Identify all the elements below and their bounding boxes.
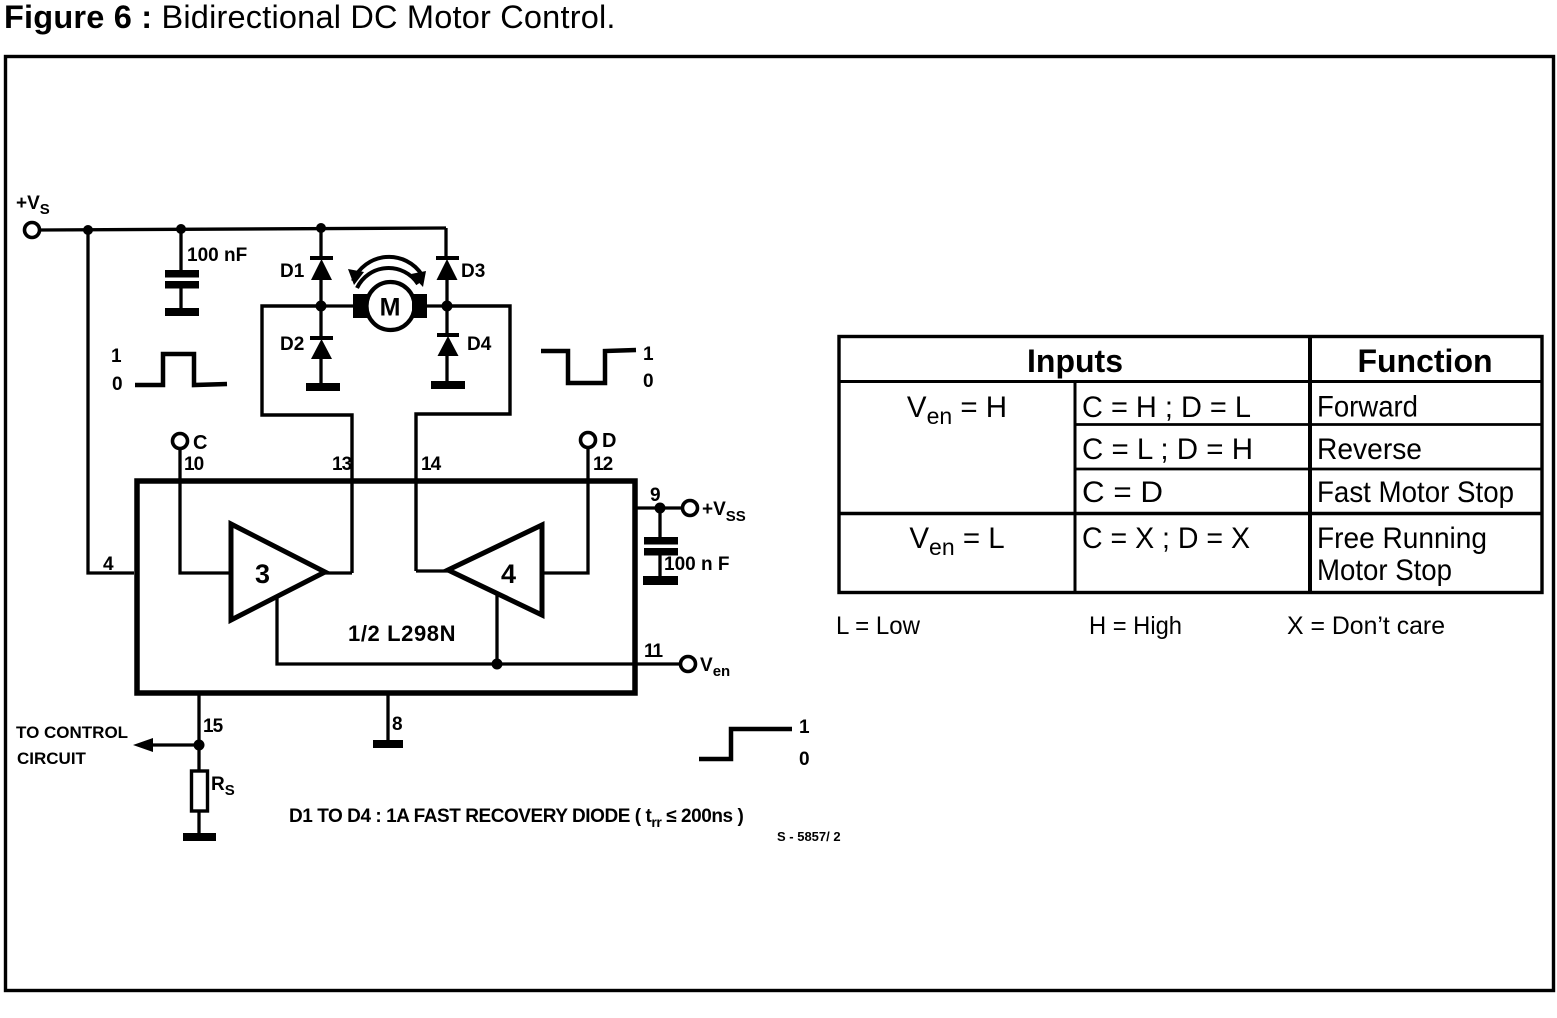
svg-text:100 nF: 100 nF bbox=[187, 245, 247, 266]
wire pin 9 bbox=[635, 506, 683, 509]
svg-text:0: 0 bbox=[643, 371, 654, 392]
svg-text:1/2 L298N: 1/2 L298N bbox=[348, 621, 456, 646]
svg-text:1: 1 bbox=[799, 717, 810, 738]
svg-text:TO CONTROL: TO CONTROL bbox=[16, 723, 128, 742]
rotation arrow bbox=[348, 257, 426, 288]
node enable junction bbox=[492, 659, 503, 670]
node motor-left junction bbox=[316, 301, 327, 312]
diode D4 bbox=[437, 306, 459, 381]
wire enable to pin 11 bbox=[497, 662, 681, 665]
svg-text:+VS: +VS bbox=[16, 193, 50, 218]
waveform input C bbox=[135, 354, 227, 385]
svg-text:Ven: Ven bbox=[700, 655, 730, 680]
svg-text:Inputs: Inputs bbox=[1027, 343, 1123, 379]
svg-text:Ven = H: Ven = H bbox=[907, 391, 1007, 429]
svg-text:15: 15 bbox=[203, 716, 224, 737]
node junction A bbox=[83, 225, 93, 235]
svg-text:14: 14 bbox=[421, 454, 442, 475]
svg-text:Motor Stop: Motor Stop bbox=[1317, 554, 1452, 587]
wire D to amp4 input bbox=[542, 447, 588, 573]
wire top rail bbox=[40, 228, 446, 230]
svg-text:C = L ; D = H: C = L ; D = H bbox=[1082, 433, 1253, 466]
svg-text:10: 10 bbox=[184, 454, 204, 475]
svg-text:X = Don’t care: X = Don’t care bbox=[1287, 612, 1445, 640]
svg-text:0: 0 bbox=[799, 749, 810, 770]
op-amp 4 bbox=[448, 525, 542, 615]
TABLE bbox=[839, 337, 1542, 593]
svg-text:D3: D3 bbox=[461, 261, 485, 282]
resistor RS bbox=[192, 771, 208, 811]
node motor-right junction bbox=[442, 301, 453, 312]
table row line 1 bbox=[1075, 423, 1542, 426]
IC U1 1/2 L298N box bbox=[137, 481, 635, 693]
svg-text:C = D: C = D bbox=[1082, 476, 1163, 509]
diode D1 bbox=[310, 228, 333, 306]
wire amp4 output bbox=[416, 569, 448, 572]
node junction C1-top bbox=[316, 223, 326, 233]
ground under C1 bbox=[165, 308, 199, 316]
svg-text:Reverse: Reverse bbox=[1317, 433, 1422, 466]
svg-text:Figure 6 : Bidirectional DC Mo: Figure 6 : Bidirectional DC Motor Contro… bbox=[4, 0, 616, 35]
svg-text:D1 TO D4 : 1A FAST RECOVERY DI: D1 TO D4 : 1A FAST RECOVERY DIODE ( trr … bbox=[289, 806, 743, 830]
waveform input D bbox=[541, 350, 636, 383]
wire C to amp3 input bbox=[180, 448, 231, 573]
svg-text:Fast Motor Stop: Fast Motor Stop bbox=[1317, 476, 1514, 509]
terminal D bbox=[581, 433, 596, 448]
svg-text:Function: Function bbox=[1357, 343, 1492, 379]
svg-text:CIRCUIT: CIRCUIT bbox=[17, 749, 87, 768]
table row line 3 bbox=[839, 512, 1542, 515]
pin 15 wire bbox=[197, 694, 200, 771]
node junction B bbox=[176, 224, 186, 234]
ground under RS bbox=[183, 833, 216, 841]
ground under C2 bbox=[643, 576, 678, 585]
svg-text:Free Running: Free Running bbox=[1317, 522, 1487, 555]
svg-text:C: C bbox=[193, 432, 207, 454]
waveform Ven step bbox=[699, 729, 792, 759]
ground pin 8 bbox=[373, 740, 403, 748]
svg-text:D1: D1 bbox=[280, 261, 305, 282]
table outer border bbox=[839, 337, 1542, 593]
diode D2 bbox=[310, 306, 333, 383]
svg-text:D: D bbox=[602, 430, 616, 452]
svg-text:1: 1 bbox=[643, 344, 654, 365]
terminal +VSS bbox=[683, 501, 698, 516]
svg-text:C = H ; D = L: C = H ; D = L bbox=[1082, 391, 1251, 424]
svg-text:0: 0 bbox=[112, 374, 123, 395]
svg-text:Ven = L: Ven = L bbox=[909, 522, 1004, 560]
svg-text:H = High: H = High bbox=[1089, 612, 1182, 640]
svg-text:1: 1 bbox=[111, 346, 122, 367]
wire RS to ground bbox=[197, 811, 200, 833]
svg-text:S - 5857/ 2: S - 5857/ 2 bbox=[777, 829, 841, 844]
arrow to control circuit bbox=[148, 743, 199, 746]
wire amp4 enable bbox=[495, 594, 498, 664]
wire Vs to pin 4 bbox=[88, 230, 134, 573]
svg-text:12: 12 bbox=[593, 454, 613, 475]
motor M bbox=[321, 282, 447, 330]
terminal Ven bbox=[681, 657, 696, 672]
wire bridge left to pin 13 bbox=[262, 306, 352, 573]
ground under D4 bbox=[431, 381, 465, 389]
svg-text:D4: D4 bbox=[467, 334, 492, 355]
svg-text:8: 8 bbox=[392, 714, 403, 735]
capacitor C2 100nF bbox=[644, 508, 678, 576]
svg-text:4: 4 bbox=[103, 554, 114, 575]
table divider col1 bbox=[1074, 382, 1077, 593]
svg-text:+VSS: +VSS bbox=[702, 499, 746, 525]
svg-text:C = X ; D = X: C = X ; D = X bbox=[1082, 522, 1250, 555]
svg-text:3: 3 bbox=[255, 559, 270, 589]
svg-text:100 n F: 100 n F bbox=[664, 554, 729, 575]
terminal C bbox=[173, 434, 188, 449]
table divider col2 bbox=[1308, 337, 1312, 593]
svg-text:RS: RS bbox=[211, 774, 235, 799]
wire bridge right to pin 14 bbox=[416, 306, 510, 571]
svg-text:11: 11 bbox=[644, 641, 664, 662]
capacitor C1 100nF bbox=[165, 229, 199, 308]
diode D3 bbox=[436, 228, 459, 306]
svg-text:L = Low: L = Low bbox=[836, 612, 921, 640]
table row line 2 bbox=[1075, 468, 1542, 471]
node pin9 junction bbox=[655, 503, 666, 514]
svg-text:4: 4 bbox=[501, 559, 516, 589]
svg-text:M: M bbox=[380, 294, 401, 322]
wire amp3 enable bbox=[277, 598, 497, 664]
pin 8 wire bbox=[386, 694, 389, 740]
terminal +VS bbox=[25, 223, 40, 238]
svg-text:D2: D2 bbox=[280, 334, 304, 355]
wire amp3 output bbox=[325, 571, 352, 574]
table header line bbox=[839, 380, 1542, 383]
svg-text:Forward: Forward bbox=[1317, 391, 1418, 424]
op-amp 3 bbox=[231, 524, 325, 620]
svg-text:13: 13 bbox=[332, 454, 352, 475]
ground under D2 bbox=[306, 383, 340, 391]
node pin15 junction bbox=[194, 740, 205, 751]
